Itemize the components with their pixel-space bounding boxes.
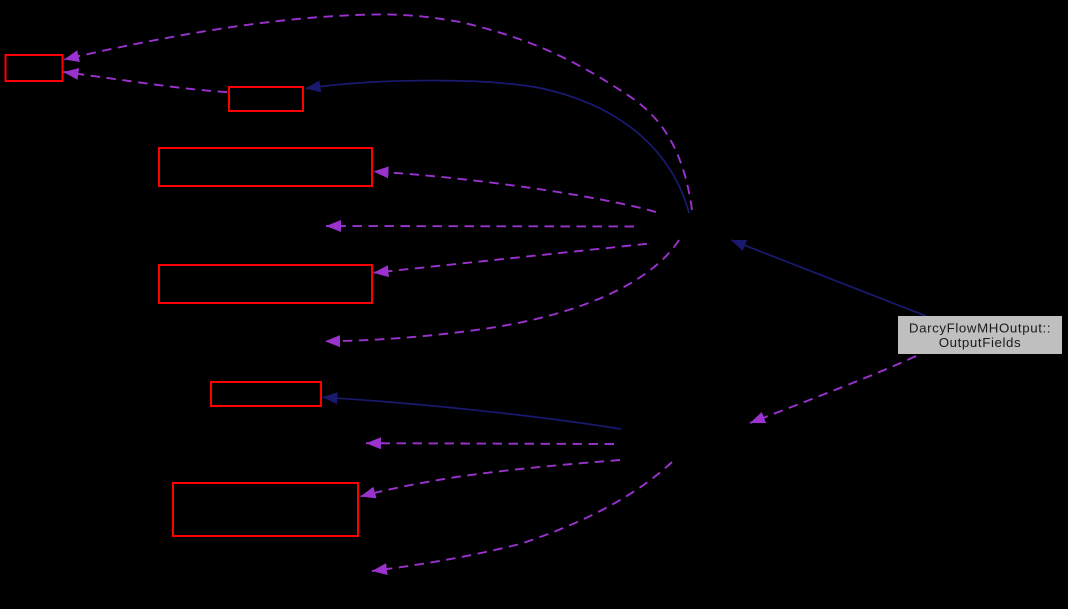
svg-text:OutputFields: OutputFields: [939, 335, 1022, 350]
svg-text:DarcyFlowMHOutput::: DarcyFlowMHOutput::: [909, 320, 1051, 335]
